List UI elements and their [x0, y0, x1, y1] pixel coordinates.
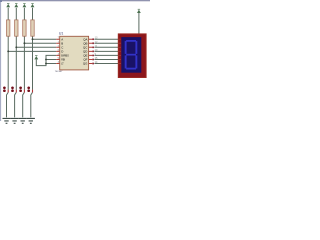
- svg-text:D: D: [61, 49, 63, 53]
- svg-text:74LS47: 74LS47: [55, 71, 63, 73]
- svg-text:QG: QG: [83, 62, 88, 66]
- svg-text:U1: U1: [59, 31, 64, 35]
- svg-text:BI/RBO: BI/RBO: [61, 56, 69, 58]
- svg-text:RBI: RBI: [61, 60, 65, 62]
